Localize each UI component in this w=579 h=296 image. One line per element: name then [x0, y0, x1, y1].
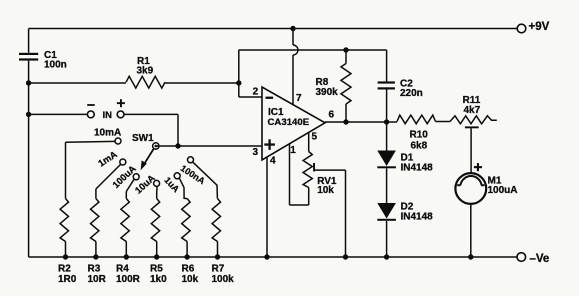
svg-text:2: 2	[253, 87, 259, 98]
svg-text:7: 7	[296, 93, 302, 104]
svg-text:R3: R3	[88, 264, 101, 275]
svg-text:4: 4	[270, 155, 276, 166]
svg-text:IN: IN	[103, 110, 113, 121]
svg-text:SW1: SW1	[132, 133, 154, 144]
svg-text:R6: R6	[182, 264, 195, 275]
svg-text:IN4148: IN4148	[401, 163, 434, 174]
svg-text:6k8: 6k8	[411, 141, 428, 152]
svg-text:100k: 100k	[212, 274, 235, 285]
svg-text:+9V: +9V	[529, 21, 550, 33]
svg-text:R10: R10	[410, 129, 429, 140]
svg-text:10R: 10R	[88, 274, 107, 285]
svg-text:3: 3	[253, 147, 259, 158]
svg-text:10k: 10k	[182, 274, 199, 285]
svg-text:4k7: 4k7	[464, 105, 481, 116]
svg-text:1k0: 1k0	[150, 274, 167, 285]
svg-text:1: 1	[290, 145, 296, 156]
svg-text:R5: R5	[150, 264, 163, 275]
svg-text:6: 6	[329, 110, 335, 121]
svg-text:IN4148: IN4148	[401, 212, 434, 223]
svg-text:5: 5	[312, 131, 318, 142]
svg-text:100n: 100n	[44, 59, 67, 70]
svg-text:10k: 10k	[317, 185, 334, 196]
svg-text:100R: 100R	[116, 274, 141, 285]
svg-text:–Ve: –Ve	[530, 253, 550, 265]
svg-text:CA3140E: CA3140E	[268, 117, 310, 128]
svg-text:1R0: 1R0	[58, 274, 77, 285]
svg-text:R4: R4	[116, 264, 129, 275]
svg-text:390k: 390k	[316, 87, 339, 98]
svg-text:3k9: 3k9	[137, 66, 154, 77]
svg-text:10mA: 10mA	[94, 127, 121, 138]
svg-text:100uA: 100uA	[488, 185, 518, 196]
svg-text:R2: R2	[58, 264, 71, 275]
svg-text:220n: 220n	[400, 88, 423, 99]
svg-text:R7: R7	[212, 264, 225, 275]
